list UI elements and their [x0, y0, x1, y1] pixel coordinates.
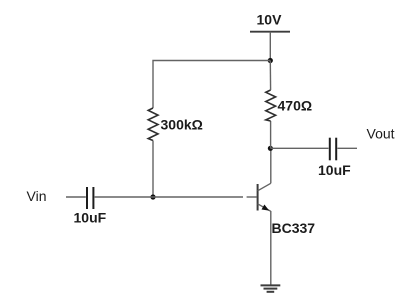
transistor Q1 emitter arrowhead	[262, 205, 270, 211]
VCC supply rail bar	[250, 31, 290, 33]
transistor Q1 base bar	[257, 184, 259, 211]
svg-text:470Ω: 470Ω	[278, 98, 313, 114]
svg-text:10V: 10V	[257, 12, 283, 28]
capacitor C2 plate right	[335, 138, 337, 161]
node: collector junction	[268, 146, 273, 151]
wire: supply bar down to top node	[269, 32, 271, 61]
capacitor C2 plate left	[329, 138, 331, 161]
resistor R1 300kΩ	[148, 108, 158, 141]
resistor R2 470Ω	[266, 90, 276, 121]
wire: collector node right to C2	[270, 147, 328, 149]
wire: short segment to base bar after gap	[247, 196, 257, 198]
svg-text:BC337: BC337	[272, 220, 316, 236]
wire: C1 to base junction and on to transistor base	[95, 196, 243, 198]
wire: Vin lead to C1	[66, 196, 86, 198]
node: top junction	[268, 58, 273, 63]
transistor Q1 collector diagonal	[258, 183, 271, 191]
capacitor C1 plate left	[86, 187, 88, 209]
svg-text:300kΩ: 300kΩ	[161, 117, 203, 133]
ground symbol middle bar	[264, 288, 278, 290]
wire: collector up to output node	[270, 148, 272, 183]
wire: below 300k down to base node	[152, 141, 154, 198]
wire: emitter down to ground	[270, 211, 272, 285]
capacitor C1 plate right	[92, 187, 94, 209]
svg-text:Vin: Vin	[27, 188, 47, 204]
node: base junction	[150, 194, 155, 199]
ground symbol bottom bar	[267, 291, 275, 293]
wire: 470 bottom down to collector node	[270, 121, 272, 148]
transistor Q1 emitter diagonal	[258, 204, 271, 212]
svg-text:10uF: 10uF	[318, 162, 351, 178]
svg-text:10uF: 10uF	[74, 210, 107, 226]
svg-text:Vout: Vout	[367, 126, 395, 142]
wire: top node down to 470	[269, 61, 271, 91]
ground symbol top bar	[261, 284, 281, 286]
wire: top horizontal rail to 300k branch	[153, 61, 270, 109]
wire: C2 to Vout lead	[337, 147, 357, 149]
